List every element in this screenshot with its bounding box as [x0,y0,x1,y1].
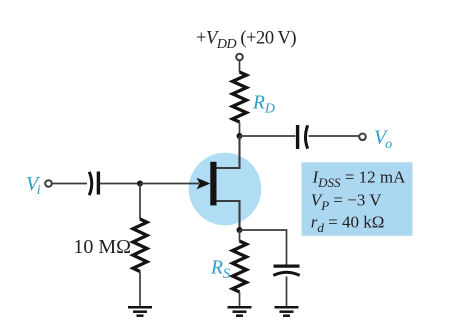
terminal VDD (open circle) [236,54,243,61]
wire Vi terminal to input capacitor [52,183,87,185]
terminal Vi (open circle) [45,180,52,187]
wire VDD terminal to RD [239,61,241,72]
transistor Q1 gate arrow [197,178,211,189]
resistor RG 10 Mohm [133,219,147,272]
ground (CS) [275,307,299,316]
wire gate node to JFET gate [140,183,199,185]
terminal Vo (open circle) [359,134,366,141]
wire source node to RS [239,230,241,241]
ground (RS) [228,307,252,316]
wire gate node down to 10M resistor [139,184,141,220]
wire drain node to output capacitor [240,135,296,137]
wire RD to drain node [239,122,241,136]
capacitor CS bypass [273,266,299,275]
node +VDD supply label [196,29,296,53]
wire bypass capacitor to ground [286,277,288,307]
resistor RS [233,241,247,292]
capacitor C2 output coupling [298,125,308,149]
parameter box background [302,162,413,236]
svg-text:10 MΩ: 10 MΩ [73,236,131,258]
svg-text:RS: RS [210,258,231,283]
wire RG to ground [139,272,141,307]
wire input capacitor to gate node [100,183,140,185]
svg-text:RD: RD [252,93,275,117]
svg-text:+VDD (+20 V): +VDD (+20 V) [196,29,296,53]
node drain junction (dot) [237,133,243,139]
transistor Q1 JFET highlight circle [189,153,262,226]
node source junction (dot) [237,227,243,233]
wire capacitor to Vo terminal [309,135,359,137]
transistor Q1 source lead [217,201,240,230]
wire RS to ground [239,292,241,306]
capacitor C1 input coupling [89,172,98,196]
svg-text:Vo: Vo [374,127,392,153]
transistor Q1 drain lead [217,136,240,168]
transistor Q1 channel bar [210,162,216,206]
node gate junction (dot) [137,181,143,187]
wire source node to bypass capacitor [240,230,287,265]
ground (RG) [128,307,152,316]
svg-text:Vi: Vi [26,173,41,198]
resistor RD [233,72,247,122]
